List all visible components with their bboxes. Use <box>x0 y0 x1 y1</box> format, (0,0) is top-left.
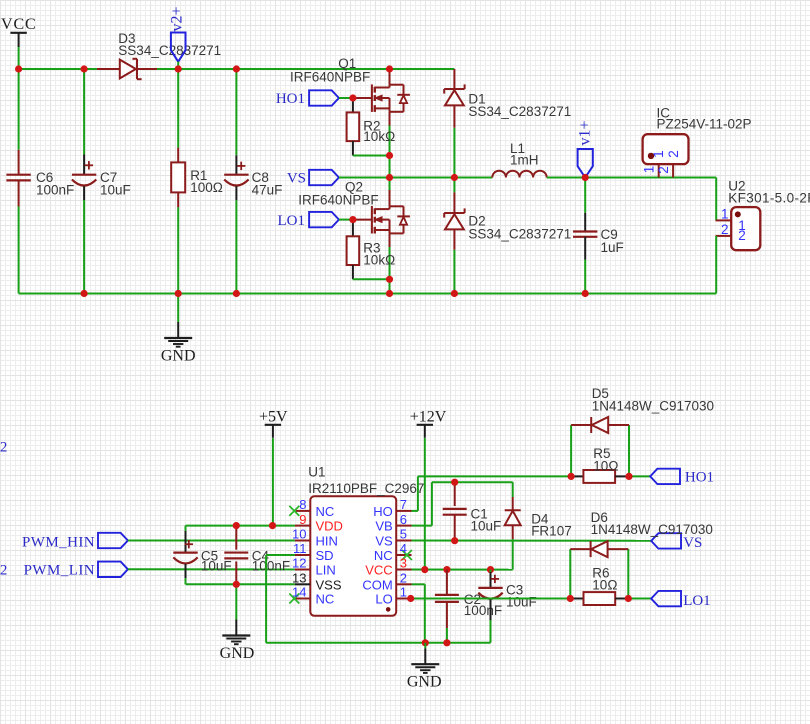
svg-text:VCC: VCC <box>365 563 392 578</box>
svg-text:2: 2 <box>400 571 407 586</box>
svg-text:10Ω: 10Ω <box>592 578 617 593</box>
svg-text:10uF: 10uF <box>201 559 232 574</box>
svg-text:VB: VB <box>375 519 392 534</box>
svg-text:1: 1 <box>400 585 407 600</box>
svg-text:VCC: VCC <box>1 16 37 33</box>
svg-text:SS34_C2837271: SS34_C2837271 <box>118 43 221 58</box>
svg-text:1uF: 1uF <box>601 240 624 255</box>
svg-text:IRF640NPBF: IRF640NPBF <box>290 70 370 85</box>
svg-text:1: 1 <box>651 150 666 158</box>
svg-text:HIN: HIN <box>316 534 338 549</box>
svg-text:11: 11 <box>293 541 307 556</box>
svg-text:2: 2 <box>0 563 7 579</box>
svg-text:IRF640NPBF: IRF640NPBF <box>298 192 378 207</box>
svg-text:KF301-5.0-2P: KF301-5.0-2P <box>728 191 810 206</box>
svg-text:COM: COM <box>362 577 392 592</box>
svg-text:2: 2 <box>738 228 746 243</box>
svg-text:10uF: 10uF <box>100 183 131 198</box>
svg-text:IR2110PBF_C2967: IR2110PBF_C2967 <box>308 481 424 496</box>
svg-text:100nF: 100nF <box>464 603 502 618</box>
svg-text:SS34_C2837271: SS34_C2837271 <box>468 104 571 119</box>
svg-text:1: 1 <box>721 206 729 221</box>
svg-text:NC: NC <box>316 592 335 607</box>
svg-text:2: 2 <box>666 150 681 158</box>
svg-text:9: 9 <box>299 512 306 527</box>
svg-text:PWM_LIN: PWM_LIN <box>24 563 95 579</box>
svg-text:100Ω: 100Ω <box>190 180 223 195</box>
svg-text:HO1: HO1 <box>685 469 714 485</box>
svg-text:10kΩ: 10kΩ <box>363 253 395 268</box>
svg-text:LO1: LO1 <box>278 213 306 229</box>
svg-text:VS: VS <box>375 534 393 549</box>
svg-text:NC: NC <box>374 548 393 563</box>
svg-text:7: 7 <box>400 497 407 512</box>
svg-text:14: 14 <box>292 585 306 600</box>
svg-text:10uF: 10uF <box>506 594 537 609</box>
svg-text:LIN: LIN <box>316 563 336 578</box>
svg-text:VS: VS <box>683 535 702 551</box>
svg-text:12: 12 <box>292 556 306 571</box>
svg-text:VDD: VDD <box>316 519 343 534</box>
svg-text:PWM_HIN: PWM_HIN <box>22 534 95 550</box>
svg-text:LO: LO <box>375 592 392 607</box>
svg-text:8: 8 <box>299 497 306 512</box>
svg-text:FR107: FR107 <box>531 523 572 538</box>
svg-text:2: 2 <box>0 440 7 456</box>
svg-text:GND: GND <box>220 645 255 662</box>
svg-text:GND: GND <box>407 674 442 691</box>
svg-text:10Ω: 10Ω <box>593 458 618 473</box>
svg-text:+12V: +12V <box>410 409 447 426</box>
svg-text:VS: VS <box>287 170 306 186</box>
svg-text:SD: SD <box>316 548 334 563</box>
svg-text:LO1: LO1 <box>683 593 711 609</box>
svg-text:2: 2 <box>656 166 671 174</box>
svg-text:GND: GND <box>161 348 196 365</box>
svg-text:U1: U1 <box>308 464 325 479</box>
svg-text:+5V: +5V <box>259 409 288 426</box>
svg-text:HO: HO <box>373 504 393 519</box>
svg-text:VSS: VSS <box>316 577 342 592</box>
svg-text:4: 4 <box>400 541 407 556</box>
svg-text:47uF: 47uF <box>252 183 283 198</box>
svg-text:10kΩ: 10kΩ <box>363 129 395 144</box>
svg-text:v1+: v1+ <box>577 120 594 145</box>
svg-text:6: 6 <box>400 512 407 527</box>
svg-text:1: 1 <box>642 166 657 174</box>
svg-text:1mH: 1mH <box>510 152 539 167</box>
svg-text:2: 2 <box>721 222 729 237</box>
svg-text:5: 5 <box>400 527 407 542</box>
svg-text:100nF: 100nF <box>36 183 74 198</box>
svg-text:NC: NC <box>316 504 335 519</box>
svg-text:v2+: v2+ <box>168 6 185 31</box>
svg-text:100nF: 100nF <box>252 559 290 574</box>
svg-text:1N4148W_C917030: 1N4148W_C917030 <box>591 522 713 537</box>
svg-text:3: 3 <box>400 556 407 571</box>
svg-text:HO1: HO1 <box>276 91 305 107</box>
svg-text:SS34_C2837271: SS34_C2837271 <box>468 227 571 242</box>
svg-text:10: 10 <box>292 527 306 542</box>
svg-text:PZ254V-11-02P: PZ254V-11-02P <box>657 117 752 132</box>
svg-text:10uF: 10uF <box>471 518 502 533</box>
svg-text:13: 13 <box>292 571 306 586</box>
svg-text:1N4148W_C917030: 1N4148W_C917030 <box>592 399 714 414</box>
